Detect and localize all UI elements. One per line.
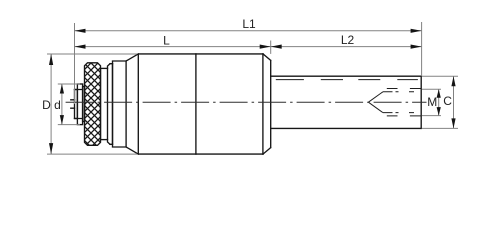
svg-text:L1: L1: [242, 17, 256, 31]
svg-text:d: d: [54, 98, 61, 112]
svg-text:M: M: [427, 95, 437, 109]
svg-text:C: C: [443, 94, 452, 108]
svg-text:L2: L2: [341, 33, 355, 47]
svg-text:L: L: [163, 33, 170, 47]
svg-text:D: D: [42, 98, 51, 112]
